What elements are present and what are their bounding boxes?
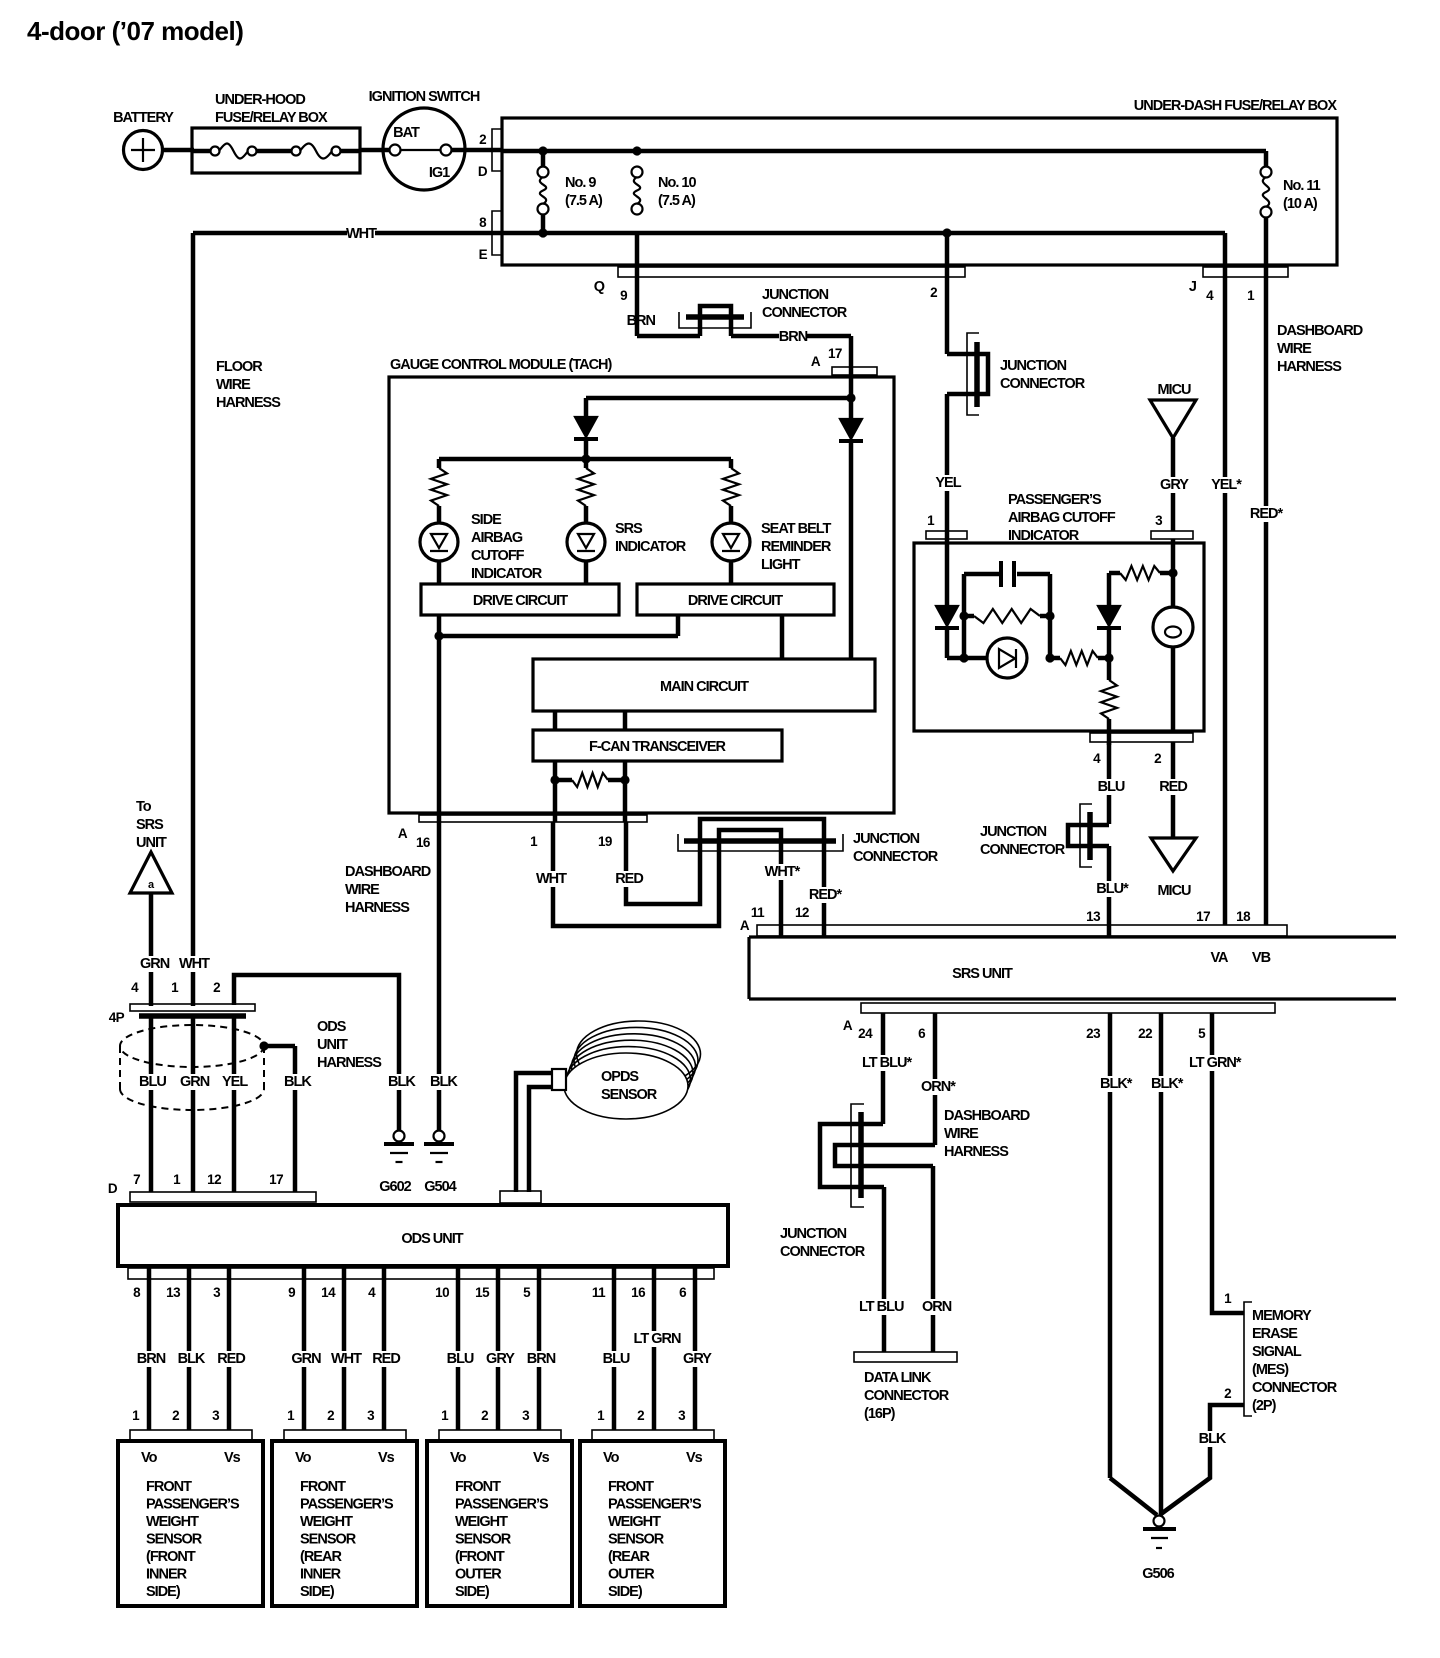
- battery: [113, 110, 174, 170]
- fuse No.11 (10 A): [1261, 167, 1321, 218]
- svg-text:CONNECTOR: CONNECTOR: [780, 1244, 866, 1260]
- wire ORN* from SRS 6: [919, 1013, 956, 1145]
- wire BRN from junction connector to gauge module terminal A17: [731, 329, 851, 377]
- svg-text:HARNESS: HARNESS: [317, 1055, 382, 1071]
- svg-text:1: 1: [287, 1408, 295, 1423]
- wire IG1 power feed (top rail): [502, 151, 1266, 167]
- 4P connector: [109, 980, 255, 1025]
- svg-text:1: 1: [173, 1172, 181, 1187]
- svg-text:1: 1: [927, 513, 935, 528]
- svg-text:LT BLU*: LT BLU*: [862, 1055, 912, 1071]
- ODS unit bottom bar: [128, 1268, 714, 1279]
- svg-text:No. 10: No. 10: [658, 175, 696, 191]
- svg-text:BLK*: BLK*: [1100, 1076, 1133, 1092]
- svg-text:A: A: [811, 354, 821, 369]
- wire WHT* to SRS terminal 11: [751, 841, 801, 937]
- indicator bulb: [1153, 539, 1193, 731]
- junction at module top: [846, 393, 855, 402]
- svg-text:13: 13: [1086, 909, 1101, 924]
- svg-text:17: 17: [828, 346, 842, 361]
- svg-text:11: 11: [751, 905, 765, 920]
- diode D4: [1097, 573, 1121, 658]
- svg-text:23: 23: [1086, 1026, 1101, 1041]
- side airbag cutoff indicator LED: [420, 512, 543, 584]
- terminal A17: [811, 346, 877, 375]
- svg-text:SENSOR: SENSOR: [455, 1532, 512, 1548]
- junction WHT rail / fuse No.9: [538, 228, 547, 237]
- terminal 2/D bracket: [478, 129, 502, 179]
- drive circuit box (left): [421, 584, 619, 615]
- resistor R7 (vertical): [1101, 658, 1117, 745]
- weight sensor group 4 wires: [592, 1266, 712, 1430]
- svg-text:WEIGHT: WEIGHT: [300, 1514, 353, 1530]
- fuse No.9 (7.5 A): [538, 151, 603, 233]
- svg-text:HARNESS: HARNESS: [345, 900, 410, 916]
- svg-text:2: 2: [172, 1408, 179, 1423]
- svg-text:DASHBOARD: DASHBOARD: [345, 864, 431, 880]
- junction connector (LT BLU/ORN): [780, 1104, 935, 1260]
- svg-text:UNDER-HOOD: UNDER-HOOD: [215, 92, 305, 108]
- wire GRN (4P-1): [178, 1018, 210, 1192]
- ODS unit box: [118, 1205, 728, 1266]
- svg-text:WEIGHT: WEIGHT: [608, 1514, 661, 1530]
- junction CAN-L: [550, 775, 559, 784]
- svg-text:22: 22: [1138, 1026, 1152, 1041]
- SRS unit box: [749, 937, 1396, 999]
- svg-text:8: 8: [133, 1285, 141, 1300]
- front passenger's weight sensor 3: [427, 1441, 572, 1606]
- snubber network wires: [947, 574, 1050, 658]
- capacitor C1: [1001, 561, 1014, 587]
- svg-text:INNER: INNER: [300, 1567, 342, 1583]
- GRN label (to SRS): [138, 956, 166, 972]
- svg-text:ERASE: ERASE: [1252, 1326, 1298, 1342]
- svg-text:4: 4: [368, 1285, 376, 1300]
- shielded cable (dashed shield): [120, 1025, 264, 1110]
- svg-text:4: 4: [131, 980, 139, 995]
- svg-text:CONNECTOR: CONNECTOR: [980, 842, 1066, 858]
- svg-text:CONNECTOR: CONNECTOR: [864, 1388, 950, 1404]
- WHT label (floor): [177, 956, 205, 972]
- svg-text:1: 1: [530, 834, 538, 849]
- junction on IG1 rail at fuse No.10: [632, 146, 641, 155]
- svg-text:a: a: [148, 879, 155, 891]
- ground G602: [379, 1131, 414, 1196]
- weight sensor group 1 wires: [132, 1266, 245, 1430]
- svg-text:BATTERY: BATTERY: [113, 110, 174, 126]
- wire RED* to SRS terminal 12: [795, 841, 843, 937]
- svg-text:No. 9: No. 9: [565, 175, 596, 191]
- svg-text:16: 16: [631, 1285, 646, 1300]
- svg-text:MICU: MICU: [1157, 382, 1191, 398]
- svg-text:MICU: MICU: [1157, 883, 1191, 899]
- svg-text:Vs: Vs: [224, 1450, 241, 1466]
- svg-text:8: 8: [479, 215, 487, 230]
- wire WHT rail from floor harness through under-dash box: [193, 233, 1225, 925]
- wire BLK* from SRS 22 to G506: [1149, 1013, 1185, 1515]
- YEL label: [934, 475, 962, 491]
- ground G506: [1142, 1516, 1176, 1583]
- svg-text:4: 4: [1093, 751, 1101, 766]
- svg-text:FUSE/RELAY BOX: FUSE/RELAY BOX: [215, 110, 328, 126]
- svg-text:SRS: SRS: [615, 521, 643, 537]
- svg-text:YEL: YEL: [222, 1074, 248, 1090]
- resistor R1: [431, 459, 447, 523]
- weight sensor group 2 connector bar: [284, 1430, 406, 1440]
- OPDS sensor: [552, 1021, 701, 1119]
- svg-text:PASSENGER’S: PASSENGER’S: [300, 1497, 394, 1513]
- fuse No.10 (7.5 A): [632, 167, 697, 215]
- SRS unit bottom terminal bar: [843, 1003, 1275, 1041]
- svg-text:YEL*: YEL*: [1211, 477, 1242, 493]
- front passenger's weight sensor 2: [272, 1441, 417, 1606]
- terminal 3 (passenger airbag cutoff indicator): [1151, 513, 1193, 539]
- svg-text:BLK: BLK: [388, 1074, 416, 1090]
- svg-text:SENSOR: SENSOR: [601, 1087, 658, 1103]
- svg-text:BLU: BLU: [447, 1351, 474, 1367]
- svg-text:SRS: SRS: [136, 817, 164, 833]
- under-dash bottom connector bar Q: [594, 267, 965, 303]
- svg-text:BLU: BLU: [603, 1351, 630, 1367]
- svg-text:HARNESS: HARNESS: [216, 395, 281, 411]
- passenger's airbag cutoff indicator box: [914, 492, 1204, 731]
- svg-text:JUNCTION: JUNCTION: [762, 287, 829, 303]
- svg-text:WIRE: WIRE: [345, 882, 380, 898]
- svg-text:IG1: IG1: [429, 165, 450, 181]
- svg-text:A: A: [843, 1018, 853, 1033]
- OPDS sensor cable: [500, 1073, 552, 1203]
- svg-text:Vo: Vo: [450, 1450, 467, 1466]
- svg-text:GRY: GRY: [1160, 477, 1189, 493]
- svg-text:WEIGHT: WEIGHT: [146, 1514, 199, 1530]
- svg-text:(REAR: (REAR: [300, 1549, 342, 1565]
- svg-text:12: 12: [207, 1172, 221, 1187]
- wire fuse box to ignition switch: [360, 148, 390, 153]
- svg-text:SENSOR: SENSOR: [300, 1532, 357, 1548]
- svg-text:10: 10: [435, 1285, 449, 1300]
- svg-text:To: To: [136, 799, 152, 815]
- svg-text:(REAR: (REAR: [608, 1549, 650, 1565]
- fuse element 2 (under-hood): [257, 144, 360, 159]
- svg-text:5: 5: [1198, 1026, 1206, 1041]
- svg-text:5: 5: [523, 1285, 531, 1300]
- svg-text:GRN: GRN: [291, 1351, 321, 1367]
- svg-text:RED*: RED*: [809, 887, 843, 903]
- front passenger's weight sensor 1: [118, 1441, 263, 1606]
- junction below left drive circuit: [434, 631, 443, 640]
- front passenger's weight sensor 4: [580, 1441, 725, 1606]
- svg-text:ODS: ODS: [317, 1019, 347, 1035]
- svg-text:Vs: Vs: [533, 1450, 550, 1466]
- svg-text:YEL: YEL: [935, 475, 961, 491]
- MICU input triangle (bottom): [1151, 838, 1196, 899]
- svg-text:INDICATOR: INDICATOR: [1008, 528, 1080, 544]
- svg-text:3: 3: [367, 1408, 375, 1423]
- wire inside module from A17: [586, 377, 851, 419]
- svg-text:ORN*: ORN*: [921, 1079, 956, 1095]
- svg-text:SIGNAL: SIGNAL: [1252, 1344, 1302, 1360]
- passenger indicator bottom terminal bar: [1090, 733, 1193, 766]
- wire ignition to under-dash box terminal 2/D: [452, 148, 502, 153]
- svg-text:1: 1: [132, 1408, 140, 1423]
- svg-text:MEMORY: MEMORY: [1252, 1308, 1312, 1324]
- svg-text:WHT: WHT: [331, 1351, 362, 1367]
- junction on GRY line: [1168, 568, 1177, 577]
- svg-text:WHT: WHT: [536, 871, 567, 887]
- svg-text:GRN: GRN: [180, 1074, 210, 1090]
- svg-text:LT GRN*: LT GRN*: [1189, 1055, 1242, 1071]
- svg-text:HARNESS: HARNESS: [944, 1144, 1009, 1160]
- svg-text:PASSENGER’S: PASSENGER’S: [608, 1497, 702, 1513]
- svg-text:DASHBOARD: DASHBOARD: [1277, 323, 1363, 339]
- photocoupler LED: [987, 638, 1027, 678]
- svg-text:1: 1: [597, 1408, 605, 1423]
- svg-text:4: 4: [1206, 288, 1214, 303]
- svg-text:BAT: BAT: [393, 125, 420, 141]
- terminal 1 (passenger airbag cutoff indicator): [926, 513, 967, 539]
- svg-text:WEIGHT: WEIGHT: [455, 1514, 508, 1530]
- svg-text:OUTER: OUTER: [455, 1567, 502, 1583]
- seat belt reminder light LED: [712, 521, 832, 584]
- svg-text:BLK: BLK: [284, 1074, 312, 1090]
- To SRS unit triangle: [130, 799, 172, 1006]
- SRS indicator LED: [567, 521, 687, 584]
- svg-text:(2P): (2P): [1252, 1398, 1277, 1414]
- svg-text:AIRBAG: AIRBAG: [471, 530, 523, 546]
- svg-text:Vo: Vo: [603, 1450, 620, 1466]
- svg-text:3: 3: [678, 1408, 686, 1423]
- ODS unit top terminal bar D: [108, 1172, 316, 1202]
- svg-text:CONNECTOR: CONNECTOR: [1252, 1380, 1338, 1396]
- svg-text:9: 9: [620, 288, 627, 303]
- svg-text:WHT*: WHT*: [765, 864, 801, 880]
- svg-text:(FRONT: (FRONT: [455, 1549, 505, 1565]
- svg-text:UNIT: UNIT: [136, 835, 167, 851]
- svg-text:(MES): (MES): [1252, 1362, 1289, 1378]
- CAN termination resistor: [555, 761, 625, 822]
- svg-text:19: 19: [598, 834, 612, 849]
- svg-text:A: A: [398, 826, 408, 841]
- svg-text:BLK: BLK: [1199, 1431, 1227, 1447]
- svg-text:BLK: BLK: [430, 1074, 458, 1090]
- svg-text:BRN: BRN: [627, 313, 656, 329]
- svg-text:DASHBOARD: DASHBOARD: [944, 1108, 1030, 1124]
- junction connector (YEL): [967, 333, 1086, 415]
- svg-text:4P: 4P: [109, 1010, 125, 1025]
- weight sensor group 2 wires: [287, 1266, 400, 1430]
- svg-text:SEAT BELT: SEAT BELT: [761, 521, 832, 537]
- svg-text:(7.5 A): (7.5 A): [565, 193, 603, 209]
- svg-text:CONNECTOR: CONNECTOR: [762, 305, 848, 321]
- shield drain wire BLK to ODS 17: [259, 1041, 312, 1192]
- svg-text:D: D: [108, 1181, 118, 1196]
- junction rail/diode D1: [581, 454, 590, 463]
- svg-text:HARNESS: HARNESS: [1277, 359, 1342, 375]
- svg-text:D: D: [478, 164, 488, 179]
- svg-text:AIRBAG CUTOFF: AIRBAG CUTOFF: [1008, 510, 1116, 526]
- svg-text:DRIVE CIRCUIT: DRIVE CIRCUIT: [688, 593, 783, 609]
- svg-text:LT BLU: LT BLU: [859, 1299, 904, 1315]
- wire 4P-2 loop to ground G602: [234, 975, 416, 1130]
- wire BLK from MES 2 to G506: [1161, 1405, 1244, 1514]
- wire WHT floor harness: [191, 233, 196, 1006]
- svg-text:REMINDER: REMINDER: [761, 539, 832, 555]
- svg-text:ODS UNIT: ODS UNIT: [401, 1231, 463, 1247]
- svg-text:RED: RED: [615, 871, 643, 887]
- diode D1 (left): [574, 417, 598, 459]
- svg-text:11: 11: [592, 1285, 606, 1300]
- svg-text:2: 2: [1154, 751, 1161, 766]
- svg-text:J: J: [1189, 279, 1197, 295]
- junction connector (BRN): [679, 287, 848, 336]
- svg-text:G504: G504: [424, 1179, 456, 1195]
- svg-text:DATA LINK: DATA LINK: [864, 1370, 932, 1386]
- junction dots snubber: [959, 611, 968, 620]
- svg-text:SIDE): SIDE): [608, 1584, 643, 1600]
- wire RED (CAN) to junction connector: [615, 822, 700, 904]
- junction connector (WHT*/RED*): [678, 819, 939, 865]
- svg-text:SIDE): SIDE): [300, 1584, 335, 1600]
- svg-text:WIRE: WIRE: [944, 1126, 979, 1142]
- junction connector (BLU): [980, 804, 1109, 867]
- svg-text:E: E: [479, 247, 488, 262]
- svg-text:IGNITION SWITCH: IGNITION SWITCH: [369, 89, 480, 105]
- wire drive circuits to main circuit: [439, 615, 782, 1130]
- svg-text:PASSENGER’S: PASSENGER’S: [1008, 492, 1102, 508]
- svg-text:MAIN CIRCUIT: MAIN CIRCUIT: [660, 679, 749, 695]
- svg-text:WIRE: WIRE: [216, 377, 251, 393]
- svg-text:G506: G506: [1142, 1566, 1174, 1582]
- wire from WHT rail to junction connector (YEL): [947, 233, 988, 542]
- svg-text:GRN: GRN: [140, 956, 170, 972]
- svg-text:Vo: Vo: [141, 1450, 158, 1466]
- SRS unit top terminal bar: [740, 909, 1287, 936]
- svg-text:3: 3: [522, 1408, 530, 1423]
- junction at diode D4 branch: [1104, 653, 1113, 662]
- svg-text:16: 16: [416, 835, 431, 850]
- diode D2 (right): [839, 419, 863, 659]
- wire BLU to junction connector: [1097, 742, 1125, 824]
- wire YEL (4P-2): [220, 1018, 248, 1192]
- wire LT GRN* from SRS 5 to MES connector: [1187, 1013, 1246, 1313]
- svg-text:A: A: [740, 918, 750, 933]
- svg-text:3: 3: [212, 1408, 220, 1423]
- svg-text:JUNCTION: JUNCTION: [980, 824, 1047, 840]
- svg-text:2: 2: [479, 132, 486, 147]
- svg-text:FRONT: FRONT: [608, 1479, 654, 1495]
- svg-text:INNER: INNER: [146, 1567, 188, 1583]
- drive circuit box (right): [637, 584, 834, 615]
- svg-text:2: 2: [213, 980, 220, 995]
- svg-text:F-CAN TRANSCEIVER: F-CAN TRANSCEIVER: [589, 739, 727, 755]
- junction CAN-H: [620, 775, 629, 784]
- svg-text:RED*: RED*: [1250, 506, 1284, 522]
- svg-text:BLK*: BLK*: [1151, 1076, 1184, 1092]
- svg-text:INDICATOR: INDICATOR: [471, 566, 543, 582]
- svg-text:SIDE: SIDE: [471, 512, 502, 528]
- ignition switch: [369, 89, 480, 190]
- svg-text:OPDS: OPDS: [601, 1069, 639, 1085]
- svg-text:SENSOR: SENSOR: [146, 1532, 203, 1548]
- svg-text:24: 24: [858, 1026, 873, 1041]
- F-CAN transceiver box: [533, 730, 782, 761]
- GRY label: [1160, 477, 1188, 493]
- svg-text:VB: VB: [1252, 950, 1271, 966]
- gauge control module (tach) box: [389, 357, 894, 813]
- svg-text:6: 6: [918, 1026, 926, 1041]
- gauge module bottom terminal bar A: [398, 815, 647, 850]
- data link connector (16P): [854, 1352, 957, 1422]
- svg-text:9: 9: [288, 1285, 295, 1300]
- svg-text:WHT: WHT: [179, 956, 210, 972]
- svg-text:CONNECTOR: CONNECTOR: [853, 849, 939, 865]
- svg-text:DRIVE CIRCUIT: DRIVE CIRCUIT: [473, 593, 568, 609]
- weight sensor group 1 connector bar: [130, 1430, 252, 1440]
- svg-text:1: 1: [1247, 288, 1255, 303]
- svg-text:GRY: GRY: [486, 1351, 515, 1367]
- svg-text:1: 1: [441, 1408, 449, 1423]
- svg-text:JUNCTION: JUNCTION: [853, 831, 920, 847]
- svg-text:13: 13: [166, 1285, 181, 1300]
- svg-text:INDICATOR: INDICATOR: [615, 539, 687, 555]
- wire BLU (4P-7): [137, 1018, 166, 1192]
- svg-text:7: 7: [133, 1172, 140, 1187]
- svg-text:LT GRN: LT GRN: [634, 1331, 681, 1347]
- svg-text:(16P): (16P): [864, 1406, 896, 1422]
- svg-text:12: 12: [795, 905, 809, 920]
- resistor R4 (snubber): [964, 609, 1050, 623]
- svg-text:Vo: Vo: [295, 1450, 312, 1466]
- svg-text:Q: Q: [594, 279, 605, 295]
- MICU output triangle (top): [1150, 382, 1196, 531]
- svg-text:No. 11: No. 11: [1283, 178, 1321, 194]
- svg-text:UNIT: UNIT: [317, 1037, 348, 1053]
- wire LT BLU to data link connector: [857, 1187, 908, 1352]
- svg-text:SENSOR: SENSOR: [608, 1532, 665, 1548]
- weight sensor group 4 connector bar: [592, 1430, 714, 1440]
- svg-text:SIDE): SIDE): [146, 1584, 181, 1600]
- svg-text:Vs: Vs: [378, 1450, 395, 1466]
- svg-text:FRONT: FRONT: [300, 1479, 346, 1495]
- svg-text:3: 3: [1155, 513, 1163, 528]
- svg-text:WIRE: WIRE: [1277, 341, 1312, 357]
- main circuit box: [533, 659, 875, 711]
- under-hood fuse/relay box: [192, 92, 360, 173]
- resistor R2: [578, 459, 594, 523]
- svg-text:ORN: ORN: [922, 1299, 952, 1315]
- under-dash fuse/relay box: [502, 98, 1337, 265]
- weight sensor group 3 wires: [435, 1266, 556, 1430]
- svg-text:CUTOFF: CUTOFF: [471, 548, 525, 564]
- resistor R6 (to lamp line): [1109, 566, 1173, 580]
- wire battery to under-hood fuse box: [162, 148, 194, 153]
- svg-text:2: 2: [1224, 1386, 1231, 1401]
- svg-text:1: 1: [1224, 1291, 1232, 1306]
- svg-text:GAUGE CONTROL MODULE (TACH): GAUGE CONTROL MODULE (TACH): [390, 357, 613, 373]
- svg-text:FLOOR: FLOOR: [216, 359, 263, 375]
- svg-text:WHT: WHT: [346, 226, 377, 242]
- svg-text:Vs: Vs: [686, 1450, 703, 1466]
- svg-text:BRN: BRN: [137, 1351, 166, 1367]
- svg-text:4-door (’07 model): 4-door (’07 model): [27, 16, 243, 46]
- weight sensor group 3 connector bar: [439, 1430, 561, 1440]
- terminal 8/E bracket: [479, 211, 502, 262]
- junction WHT rail / junction-connector drop: [942, 228, 951, 237]
- wire WHT (CAN) to junction connector: [536, 822, 719, 926]
- svg-text:PASSENGER’S: PASSENGER’S: [455, 1497, 549, 1513]
- wires main circuit to F-CAN transceiver: [555, 711, 625, 730]
- svg-text:BLK: BLK: [178, 1351, 206, 1367]
